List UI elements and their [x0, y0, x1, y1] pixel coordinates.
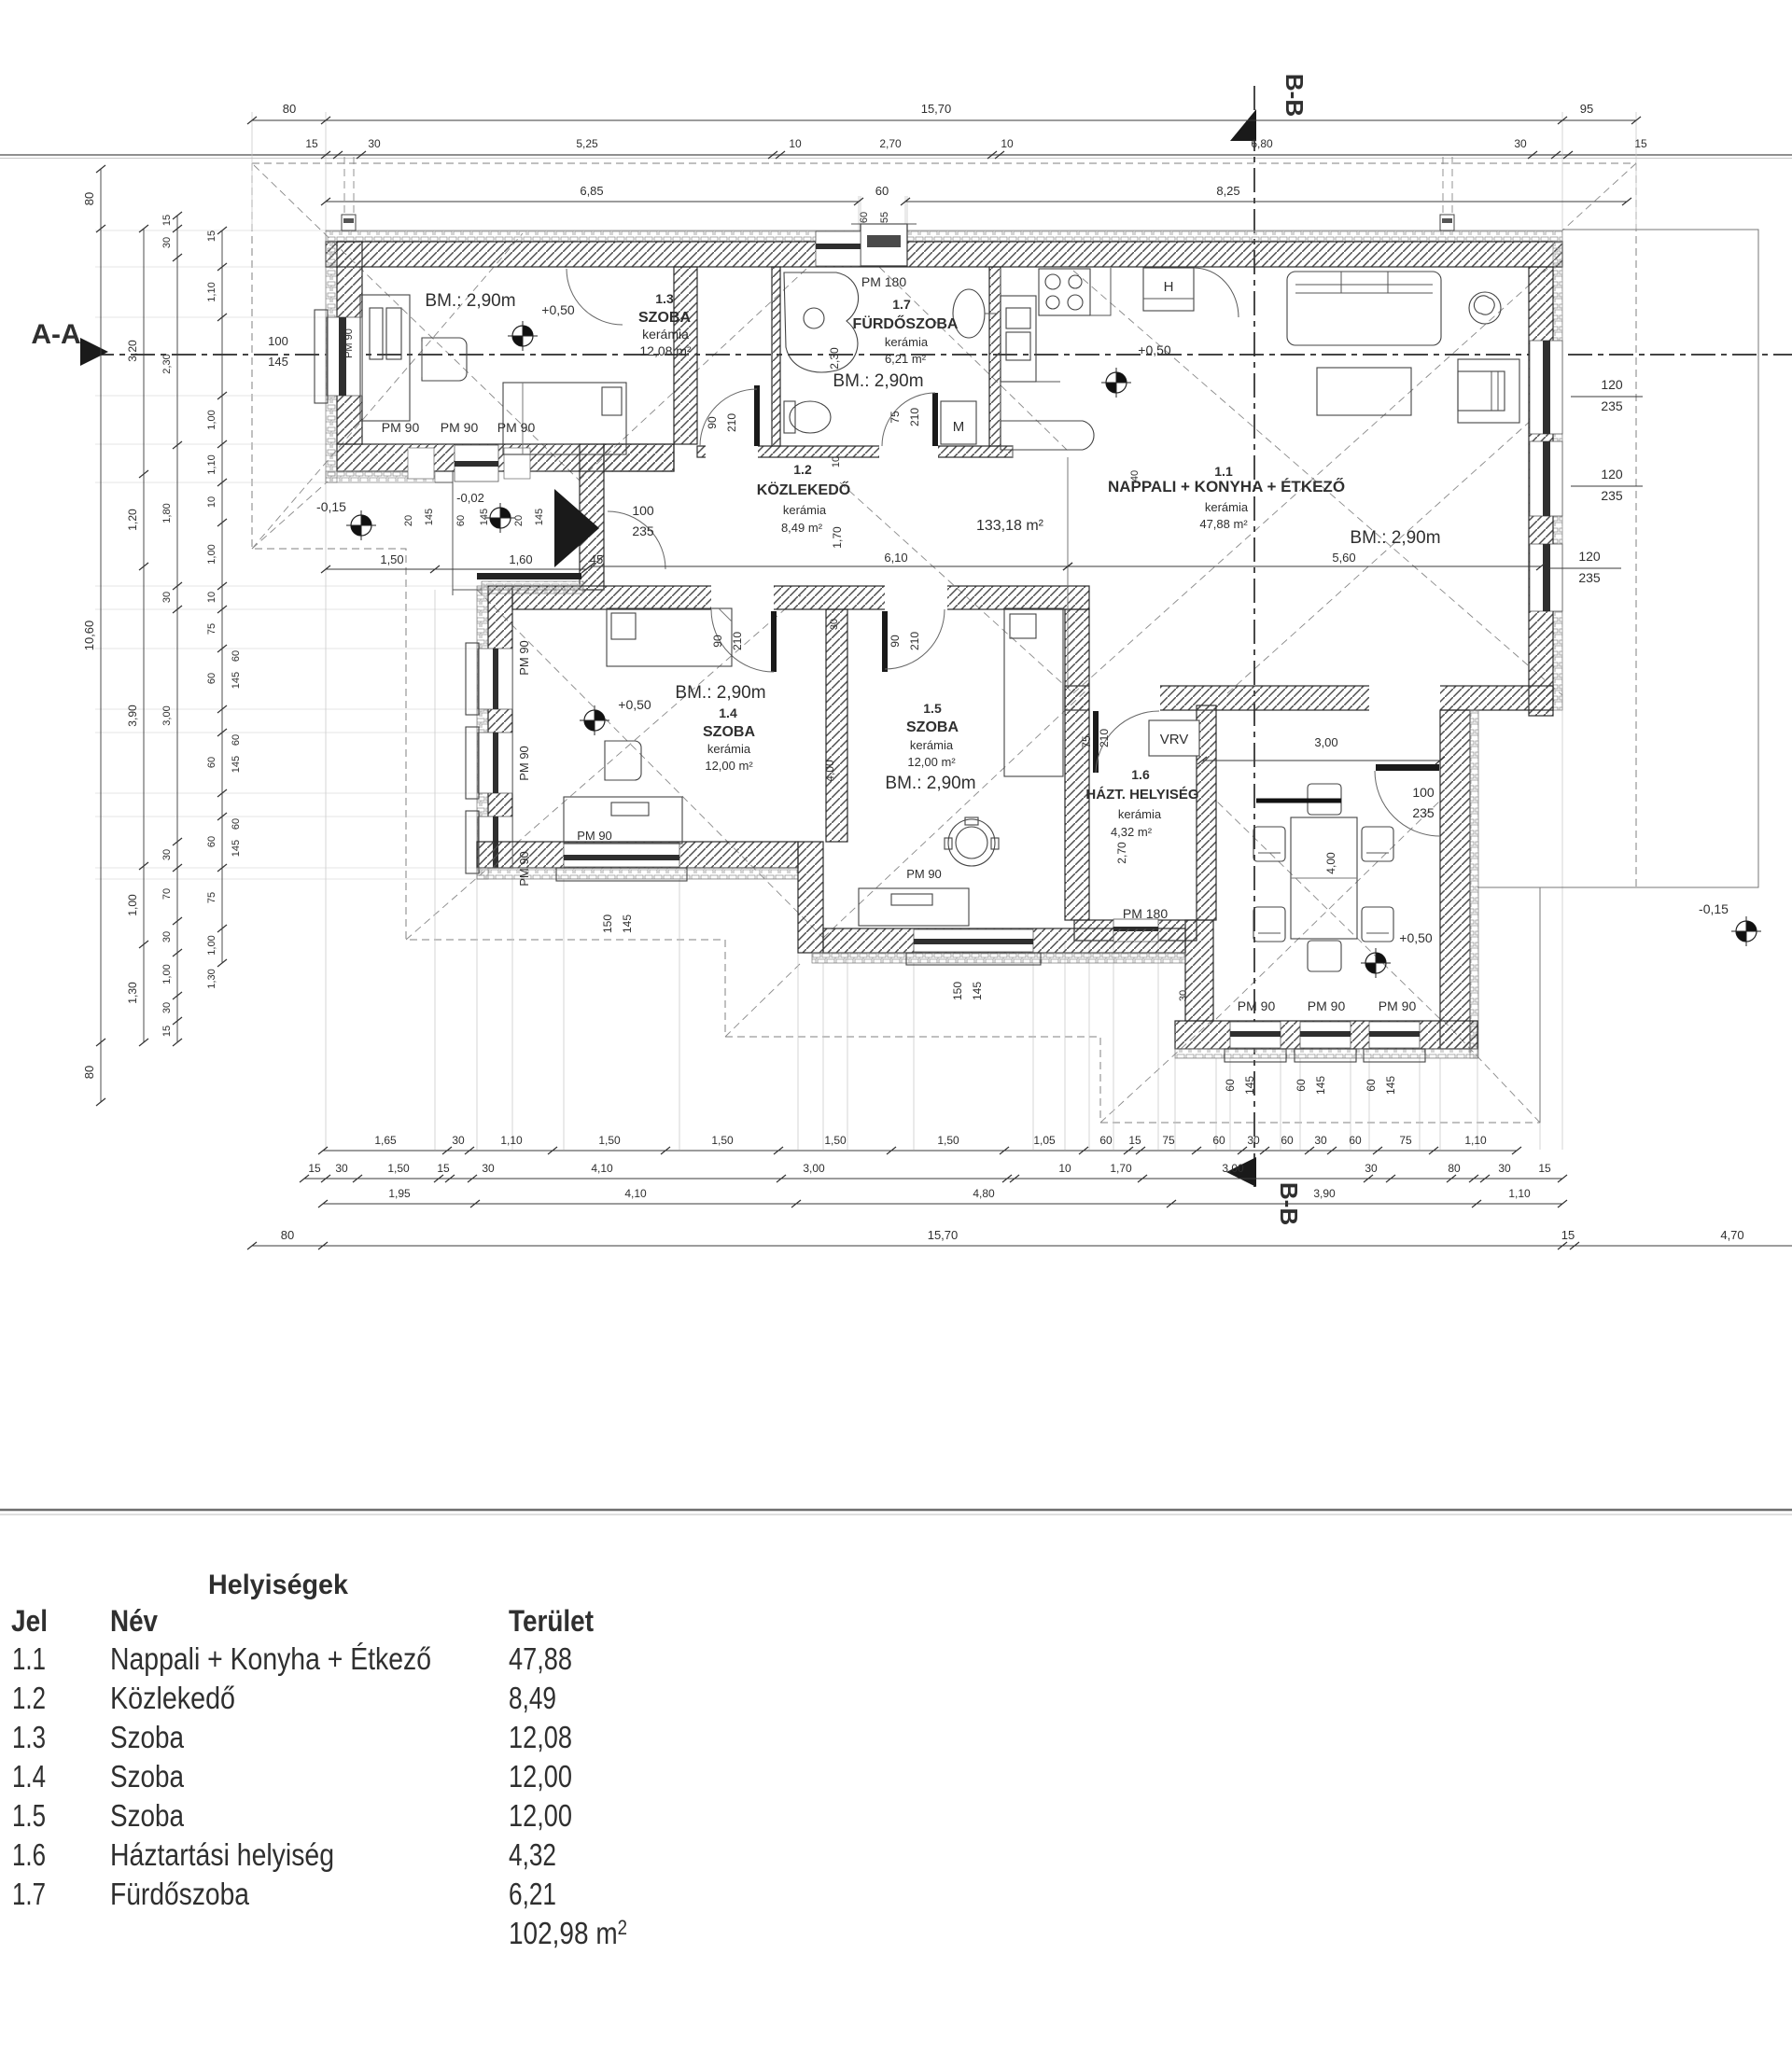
- svg-text:75: 75: [206, 892, 217, 903]
- level marker living: [1101, 368, 1131, 398]
- svg-text:235: 235: [1601, 398, 1623, 413]
- svg-text:4,10: 4,10: [591, 1162, 613, 1175]
- svg-text:BM.: 2,90m: BM.: 2,90m: [425, 291, 515, 311]
- svg-text:80: 80: [1448, 1162, 1461, 1175]
- neighbouring slab outline: [1477, 230, 1758, 887]
- svg-text:235: 235: [632, 523, 654, 538]
- svg-text:+0,50: +0,50: [1399, 930, 1433, 945]
- svg-text:145: 145: [231, 756, 242, 773]
- svg-text:12,00 m²: 12,00 m²: [907, 755, 956, 769]
- svg-text:Terület: Terület: [509, 1604, 594, 1638]
- svg-text:1,05: 1,05: [1033, 1134, 1056, 1147]
- level marker room 1.4: [580, 705, 609, 735]
- level marker room 1.3: [508, 321, 538, 351]
- svg-text:1,95: 1,95: [388, 1187, 411, 1200]
- svg-text:90: 90: [711, 635, 724, 648]
- wall: top exterior (insulation band): [326, 230, 1562, 242]
- wardrobe/desk room 1.3: [360, 295, 410, 421]
- svg-text:10: 10: [1058, 1162, 1071, 1175]
- svg-text:30: 30: [1247, 1134, 1260, 1147]
- wall: top exterior (masonry): [326, 242, 1562, 267]
- svg-text:12,00 m²: 12,00 m²: [705, 759, 753, 773]
- svg-text:60: 60: [859, 212, 870, 223]
- level marker right -0,15: [1731, 916, 1761, 946]
- svg-text:PM 90: PM 90: [577, 829, 612, 843]
- corner bathtub: [784, 272, 859, 372]
- niches in 1.3 south wall: [408, 448, 434, 479]
- svg-text:1.1: 1.1: [12, 1641, 46, 1676]
- svg-text:1,10: 1,10: [1464, 1134, 1487, 1147]
- svg-text:12,08 m²: 12,08 m²: [639, 343, 692, 358]
- section line A-A: [90, 354, 1792, 356]
- svg-text:1.4: 1.4: [719, 705, 737, 720]
- bed room 1.5: [1004, 608, 1063, 776]
- svg-text:Szoba: Szoba: [110, 1798, 185, 1833]
- svg-text:235: 235: [1578, 570, 1601, 585]
- svg-text:kerámia: kerámia: [1118, 807, 1162, 821]
- level marker dining: [1361, 948, 1391, 978]
- window 100/145 in bottom wall of 1.3: [455, 445, 498, 482]
- svg-text:1.3: 1.3: [12, 1720, 46, 1754]
- svg-text:133,18 m²: 133,18 m²: [976, 518, 1044, 534]
- svg-text:SZOBA: SZOBA: [703, 724, 755, 740]
- chair room 1.3: [422, 338, 467, 381]
- door gap living-dining: [1369, 685, 1440, 711]
- bed room 1.4: [607, 608, 732, 666]
- svg-text:+0,50: +0,50: [541, 302, 575, 317]
- svg-text:145: 145: [1243, 1076, 1256, 1095]
- svg-text:H: H: [1164, 279, 1174, 295]
- svg-text:145: 145: [231, 840, 242, 857]
- door room 1.3 from corridor: [754, 385, 760, 446]
- svg-text:+0,50: +0,50: [618, 697, 651, 712]
- svg-text:PM 180: PM 180: [1123, 906, 1168, 921]
- svg-text:120: 120: [1601, 467, 1623, 482]
- svg-text:47,88 m²: 47,88 m²: [1199, 517, 1248, 531]
- wall: living room south: [1065, 686, 1553, 710]
- svg-text:1,50: 1,50: [824, 1134, 847, 1147]
- svg-text:30: 30: [161, 849, 173, 860]
- svg-text:30: 30: [452, 1134, 465, 1147]
- left chain B: [143, 229, 145, 1042]
- svg-text:1.6: 1.6: [12, 1837, 46, 1872]
- svg-text:145: 145: [971, 982, 984, 1000]
- svg-text:1,50: 1,50: [380, 552, 403, 566]
- svg-text:4,00: 4,00: [823, 760, 836, 782]
- windows 120/235 right wall x3: [1530, 341, 1562, 434]
- svg-text:1.5: 1.5: [12, 1798, 46, 1833]
- 1.4 south window: [564, 843, 679, 867]
- svg-text:NAPPALI + KONYHA + ÉTKEZŐ: NAPPALI + KONYHA + ÉTKEZŐ: [1108, 478, 1345, 496]
- armchair: [1458, 359, 1519, 423]
- svg-text:80: 80: [82, 192, 96, 205]
- svg-text:4,80: 4,80: [973, 1187, 995, 1200]
- svg-text:60: 60: [1365, 1079, 1378, 1092]
- svg-text:-0,02: -0,02: [456, 491, 484, 505]
- svg-text:M: M: [953, 419, 965, 435]
- svg-text:10: 10: [831, 456, 842, 468]
- kitchen counter + sink: [1001, 296, 1036, 382]
- svg-text:1.4: 1.4: [12, 1759, 46, 1794]
- svg-text:235: 235: [1412, 805, 1435, 820]
- wall: 1.4 / 1.5 partition: [826, 609, 847, 842]
- svg-text:10,60: 10,60: [82, 621, 96, 651]
- svg-text:KÖZLEKEDŐ: KÖZLEKEDŐ: [757, 481, 850, 498]
- svg-text:100: 100: [1412, 785, 1435, 800]
- PM180 opening 1.6 south: [1113, 919, 1158, 942]
- svg-text:PM 90: PM 90: [517, 746, 531, 781]
- svg-text:75: 75: [1162, 1134, 1175, 1147]
- svg-text:30: 30: [482, 1162, 495, 1175]
- svg-text:145: 145: [1314, 1076, 1327, 1095]
- svg-text:3,00: 3,00: [1222, 1162, 1244, 1175]
- svg-text:3,90: 3,90: [1313, 1187, 1336, 1200]
- svg-text:kerámia: kerámia: [783, 503, 827, 517]
- wall: 1.3 east partition: [674, 267, 697, 444]
- wall: bath east thin partition: [989, 267, 1001, 446]
- extension lines to dimension chains: [325, 482, 327, 1150]
- wall: bath/corridor south thin partition: [697, 446, 1013, 457]
- chair room 1.4: [605, 741, 641, 780]
- wall: 1.6 / dining partition: [1197, 705, 1216, 920]
- svg-text:75: 75: [1399, 1134, 1412, 1147]
- svg-text:PM 90: PM 90: [1238, 998, 1276, 1013]
- svg-text:60: 60: [1349, 1134, 1362, 1147]
- wall: dining south: [1175, 1021, 1477, 1049]
- svg-text:1,60: 1,60: [509, 552, 532, 566]
- svg-text:80: 80: [283, 102, 296, 116]
- svg-text:120: 120: [1601, 377, 1623, 392]
- svg-text:80: 80: [82, 1066, 96, 1079]
- svg-text:+0,50: +0,50: [1138, 342, 1171, 357]
- svg-text:60: 60: [231, 650, 242, 662]
- svg-text:60: 60: [875, 184, 889, 198]
- svg-text:15: 15: [1538, 1162, 1551, 1175]
- kitchen boundary line: [1067, 457, 1069, 686]
- svg-text:1.2: 1.2: [12, 1681, 46, 1715]
- svg-text:75: 75: [1080, 735, 1093, 748]
- svg-text:4,10: 4,10: [624, 1187, 647, 1200]
- door room 1.5: [882, 611, 888, 672]
- svg-text:60: 60: [1224, 1079, 1237, 1092]
- window 100/145 left wall room 1.3: [327, 317, 362, 396]
- svg-text:15: 15: [1561, 1228, 1575, 1242]
- svg-text:1.5: 1.5: [923, 701, 942, 716]
- svg-text:1,50: 1,50: [937, 1134, 959, 1147]
- svg-text:A-A: A-A: [31, 319, 80, 350]
- top page rule: [0, 154, 1792, 156]
- svg-text:Szoba: Szoba: [110, 1759, 185, 1794]
- bottom chain 2: [304, 1178, 1562, 1180]
- svg-text:120: 120: [1578, 549, 1601, 564]
- door gap to 1.6: [1089, 685, 1160, 711]
- svg-text:1,00: 1,00: [206, 935, 217, 955]
- svg-text:210: 210: [725, 413, 738, 432]
- entry door arc: [608, 511, 665, 569]
- svg-text:30: 30: [1178, 990, 1189, 1001]
- svg-text:5,60: 5,60: [1332, 551, 1355, 565]
- svg-text:-0,15: -0,15: [316, 499, 346, 514]
- svg-text:Jel: Jel: [11, 1604, 48, 1638]
- window PM180 top wall at bath: [816, 231, 861, 266]
- svg-text:6,85: 6,85: [580, 184, 603, 198]
- svg-text:15: 15: [161, 1026, 173, 1037]
- svg-text:10: 10: [206, 592, 217, 603]
- door room 1.4: [771, 611, 777, 672]
- svg-text:1,30: 1,30: [126, 982, 139, 1004]
- svg-text:1,65: 1,65: [374, 1134, 397, 1147]
- svg-text:210: 210: [908, 632, 921, 650]
- svg-text:1,00: 1,00: [206, 544, 217, 564]
- svg-text:145: 145: [424, 509, 435, 525]
- pot symbol room 1.5: [948, 819, 995, 866]
- svg-text:10: 10: [1001, 137, 1014, 150]
- svg-text:kerámia: kerámia: [910, 738, 954, 752]
- svg-text:BM.: 2,90m: BM.: 2,90m: [1350, 528, 1440, 548]
- chimney block: [861, 224, 907, 266]
- svg-text:1,70: 1,70: [1110, 1162, 1132, 1175]
- svg-text:15: 15: [1128, 1134, 1141, 1147]
- wall: 1.4 south: [477, 842, 798, 868]
- svg-text:PM 90: PM 90: [343, 328, 355, 358]
- svg-text:4,32 m²: 4,32 m²: [1111, 825, 1153, 839]
- svg-text:60: 60: [1099, 1134, 1113, 1147]
- wall: lower wing north (corridor south): [512, 586, 1089, 609]
- svg-text:8,49 m²: 8,49 m²: [781, 521, 823, 535]
- left chain A overall: [100, 169, 102, 1102]
- svg-text:1.2: 1.2: [793, 462, 812, 477]
- svg-text:4,32: 4,32: [509, 1837, 556, 1872]
- svg-text:20: 20: [403, 515, 414, 526]
- svg-text:15,70: 15,70: [928, 1228, 959, 1242]
- svg-text:1,10: 1,10: [206, 282, 217, 301]
- svg-text:145: 145: [621, 914, 634, 933]
- svg-text:PM 90: PM 90: [517, 851, 531, 886]
- svg-text:1,50: 1,50: [711, 1134, 734, 1147]
- svg-text:kerámia: kerámia: [707, 742, 751, 756]
- svg-text:75: 75: [206, 623, 217, 635]
- svg-text:1.6: 1.6: [1131, 767, 1150, 782]
- west wall windows 60/145 x3: [478, 649, 512, 709]
- svg-text:12,00: 12,00: [509, 1759, 572, 1794]
- svg-text:3,90: 3,90: [126, 705, 139, 727]
- svg-text:Szoba: Szoba: [110, 1720, 185, 1754]
- bottom page rule: [0, 1509, 1792, 1512]
- svg-text:2,30: 2,30: [828, 347, 841, 370]
- svg-text:PM 90: PM 90: [497, 420, 536, 435]
- entry porch outline: [435, 471, 581, 595]
- svg-text:PM 90: PM 90: [382, 420, 420, 435]
- svg-text:B-B: B-B: [1281, 74, 1309, 117]
- svg-text:-0,15: -0,15: [1699, 901, 1729, 916]
- svg-text:145: 145: [268, 355, 288, 369]
- svg-text:40: 40: [1129, 470, 1141, 482]
- svg-text:210: 210: [1098, 729, 1111, 747]
- corridor north wall piece: [604, 444, 674, 471]
- svg-text:60: 60: [231, 818, 242, 830]
- svg-text:210: 210: [731, 632, 744, 650]
- svg-text:Helyiségek: Helyiségek: [208, 1570, 348, 1600]
- svg-text:1,20: 1,20: [126, 509, 139, 531]
- svg-text:60: 60: [206, 836, 217, 847]
- svg-text:75: 75: [889, 411, 902, 424]
- svg-text:1,00: 1,00: [126, 894, 139, 916]
- svg-text:15: 15: [305, 137, 318, 150]
- section line B-B: [1253, 86, 1255, 1187]
- svg-text:PM 90: PM 90: [1308, 998, 1346, 1013]
- counter outline to fridge: [1001, 268, 1111, 421]
- roof hip diagonal lines: [254, 165, 579, 480]
- svg-text:1.1: 1.1: [1214, 464, 1233, 479]
- level marker porch: [485, 503, 515, 533]
- svg-text:15: 15: [1634, 137, 1647, 150]
- svg-text:10: 10: [206, 496, 217, 508]
- entry arrow: [554, 489, 599, 567]
- svg-text:10: 10: [789, 137, 802, 150]
- svg-text:15: 15: [161, 215, 173, 226]
- wall: left exterior of room 1.3: [326, 242, 337, 482]
- svg-text:145: 145: [479, 509, 490, 525]
- svg-text:8,49: 8,49: [509, 1681, 556, 1715]
- svg-text:Név: Név: [110, 1604, 158, 1638]
- dining table: [1291, 817, 1357, 939]
- wall: step between 1.4 and 1.5 south walls: [798, 842, 823, 953]
- bottom chain 4 overall: [252, 1245, 1792, 1247]
- sofa: [1287, 272, 1441, 345]
- svg-text:47,88: 47,88: [509, 1641, 572, 1676]
- top chain overall: [252, 119, 1636, 121]
- svg-text:1,50: 1,50: [598, 1134, 621, 1147]
- svg-text:4,70: 4,70: [1720, 1228, 1743, 1242]
- svg-text:30: 30: [161, 1002, 173, 1013]
- svg-text:6,10: 6,10: [884, 551, 907, 565]
- 1.5 south window: [914, 929, 1033, 952]
- svg-text:60: 60: [1212, 1134, 1225, 1147]
- svg-text:90: 90: [889, 635, 902, 648]
- wall: 1.5 south: [823, 928, 1185, 953]
- fridge H: [1143, 268, 1194, 311]
- svg-text:30: 30: [829, 619, 840, 630]
- svg-text:1.7: 1.7: [892, 297, 911, 312]
- svg-text:15: 15: [308, 1162, 321, 1175]
- svg-text:30: 30: [161, 592, 173, 603]
- svg-text:1,70: 1,70: [831, 526, 844, 549]
- svg-text:145: 145: [1384, 1076, 1397, 1095]
- svg-text:3,00: 3,00: [1314, 735, 1337, 749]
- wall: bottom of room 1.3 / corridor north: [337, 444, 674, 471]
- svg-text:60: 60: [206, 757, 217, 768]
- svg-text:PM 180: PM 180: [861, 274, 906, 289]
- entry threshold: [477, 573, 581, 579]
- svg-text:kerámia: kerámia: [885, 335, 929, 349]
- level marker terrace -0,15: [346, 510, 376, 540]
- svg-text:5,25: 5,25: [576, 137, 598, 150]
- svg-text:BM.: 2,90m: BM.: 2,90m: [833, 371, 923, 391]
- svg-text:PM 90: PM 90: [517, 640, 531, 676]
- svg-text:2,70: 2,70: [1115, 842, 1128, 864]
- door living-dining: [1376, 764, 1439, 771]
- svg-text:3,00: 3,00: [803, 1162, 825, 1175]
- svg-text:145: 145: [231, 672, 242, 689]
- svg-text:70: 70: [161, 888, 173, 900]
- svg-text:12,08: 12,08: [509, 1720, 572, 1754]
- svg-text:6,21 m²: 6,21 m²: [885, 352, 927, 366]
- svg-text:60: 60: [1295, 1079, 1308, 1092]
- svg-text:6,80: 6,80: [1251, 137, 1273, 150]
- bed room 1.3: [503, 383, 626, 454]
- svg-text:30: 30: [161, 237, 173, 248]
- svg-text:145: 145: [534, 509, 545, 525]
- svg-text:1,80: 1,80: [161, 503, 173, 523]
- svg-text:60: 60: [206, 673, 217, 684]
- svg-text:15: 15: [206, 230, 217, 242]
- svg-text:80: 80: [281, 1228, 294, 1242]
- svg-text:Közlekedő: Közlekedő: [110, 1681, 235, 1715]
- svg-text:kerámia: kerámia: [1205, 500, 1249, 514]
- svg-text:1,10: 1,10: [1508, 1187, 1531, 1200]
- svg-text:30: 30: [368, 137, 381, 150]
- door gaps rooms 1.4 / 1.5: [711, 585, 774, 610]
- vent pipe left: [344, 157, 354, 230]
- svg-text:1,00: 1,00: [161, 964, 173, 984]
- svg-text:3,00: 3,00: [161, 705, 173, 725]
- vent pipe right: [1443, 157, 1452, 230]
- svg-text:2,70: 2,70: [879, 137, 902, 150]
- in-plan dims 6,10 / 5,60: [590, 565, 1068, 567]
- svg-text:100: 100: [268, 334, 288, 348]
- svg-text:kerámia: kerámia: [642, 327, 689, 342]
- svg-text:12,00: 12,00: [509, 1798, 572, 1833]
- toilet: [790, 401, 831, 433]
- svg-text:4,00: 4,00: [1324, 852, 1337, 874]
- svg-text:150: 150: [601, 914, 614, 933]
- svg-text:30: 30: [1498, 1162, 1511, 1175]
- dining door shade line: [1256, 799, 1341, 803]
- svg-text:1,50: 1,50: [387, 1162, 410, 1175]
- svg-text:30: 30: [161, 931, 173, 942]
- svg-text:8,25: 8,25: [1216, 184, 1239, 198]
- svg-text:60: 60: [231, 734, 242, 746]
- svg-text:1,10: 1,10: [500, 1134, 523, 1147]
- svg-text:235: 235: [1601, 488, 1623, 503]
- svg-text:1.3: 1.3: [655, 291, 674, 306]
- svg-text:FÜRDŐSZOBA: FÜRDŐSZOBA: [853, 314, 959, 332]
- dresser room 1.5: [859, 888, 969, 926]
- door room 1.6: [1093, 711, 1099, 773]
- roof overhang dashed outline: [252, 163, 1636, 1123]
- svg-text:BM.: 2,90m: BM.: 2,90m: [675, 683, 765, 703]
- bottom chain 3: [323, 1203, 1562, 1205]
- door room 1.3 (top): [567, 269, 623, 325]
- dining chairs: [1308, 784, 1341, 815]
- svg-text:30: 30: [1365, 1162, 1378, 1175]
- svg-text:SZOBA: SZOBA: [638, 310, 691, 326]
- svg-text:Háztartási helyiség: Háztartási helyiség: [110, 1837, 334, 1872]
- wall: dining west below 1.6: [1185, 920, 1213, 1021]
- svg-text:102,98 m2: 102,98 m2: [509, 1916, 627, 1950]
- washing machine M: [941, 401, 976, 444]
- svg-text:30: 30: [1314, 1134, 1327, 1147]
- plant: [1469, 292, 1501, 324]
- svg-text:95: 95: [1580, 102, 1593, 116]
- svg-text:6,21: 6,21: [509, 1877, 556, 1911]
- svg-text:SZOBA: SZOBA: [906, 719, 959, 735]
- door bath to M area: [932, 393, 938, 446]
- svg-text:VRV: VRV: [1160, 732, 1189, 747]
- wall: dining east: [1440, 710, 1470, 1049]
- svg-text:Fürdőszoba: Fürdőszoba: [110, 1877, 250, 1911]
- wall: lower wing west: [477, 586, 488, 879]
